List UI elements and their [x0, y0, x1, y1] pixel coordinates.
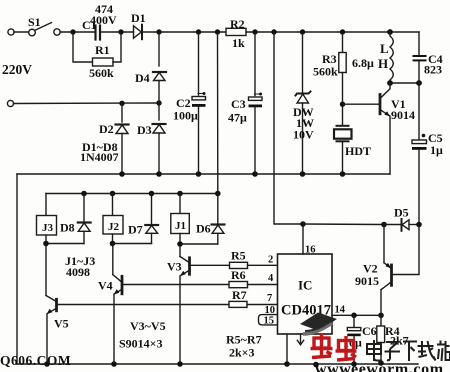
watermark bug char 1: [311, 333, 333, 358]
wire: [60, 31, 94, 33]
inductor L: [390, 32, 393, 83]
svg-text:C6: C6: [362, 324, 377, 338]
node J1 top: [177, 191, 183, 197]
node C1-D1 junction: [118, 29, 123, 34]
node J2 bottom: [110, 241, 116, 247]
diode D8: [78, 194, 91, 244]
svg-text:100μ: 100μ: [173, 109, 198, 123]
node DW top: [300, 29, 305, 34]
node C1 left junction: [70, 29, 75, 34]
wire bottom ground rail: [17, 363, 418, 365]
wire: [198, 107, 200, 174]
wire: [302, 103, 304, 174]
terminal top-left: [8, 29, 14, 35]
svg-text:Q606.COM: Q606.COM: [0, 353, 71, 368]
piezo HDT: [334, 126, 352, 142]
wire pin 14: [332, 314, 381, 316]
diode D7: [145, 194, 158, 244]
wire R3 top lead: [342, 32, 344, 53]
node J1 bottom: [177, 241, 183, 247]
svg-text:V3: V3: [167, 260, 182, 274]
wire C2 line: [198, 32, 200, 95]
svg-text:V3~V5: V3~V5: [130, 319, 166, 333]
resistor R4: [377, 315, 385, 364]
watermark text dianzi xiazaizhan: [367, 340, 450, 361]
wire R6 to pin4: [248, 284, 278, 286]
resistor R5: [230, 262, 248, 268]
wire J2-D7 link: [113, 243, 152, 245]
node mid rail DW: [300, 171, 306, 177]
svg-text:R2: R2: [230, 17, 245, 31]
node V5 emitter: [44, 361, 50, 367]
wire R7 to pin7: [247, 304, 277, 306]
svg-text:15: 15: [264, 316, 275, 327]
char xia: [403, 342, 417, 362]
wire IC rail to D5: [303, 223, 384, 226]
wire pins 10-15 loop: [259, 315, 278, 325]
node C6 top: [351, 313, 357, 319]
svg-text:9014: 9014: [391, 108, 415, 122]
capacitor C2: [192, 92, 206, 107]
wire long drop to IC rail: [274, 32, 303, 224]
char zai: [418, 341, 436, 361]
watermark logo cap: [300, 313, 337, 335]
wire pin 8 to ground: [286, 334, 288, 364]
svg-text:7: 7: [267, 293, 272, 304]
node J3 bottom: [43, 241, 49, 247]
node D4/D3 mid: [156, 100, 161, 105]
node mid rail D2: [119, 171, 125, 177]
svg-text:R7: R7: [232, 288, 247, 302]
wire R5 to pin2: [248, 264, 278, 266]
capacitor C3: [249, 93, 263, 108]
wire mid ground rail: [17, 173, 390, 175]
zener DW: [296, 92, 311, 104]
diode D6: [212, 194, 225, 245]
node D4 top: [156, 29, 161, 34]
node J2 top: [110, 191, 116, 197]
wire J1-D6 link: [180, 243, 218, 245]
node mid rail C3: [252, 171, 258, 177]
wire R3 bottom to HDT: [342, 73, 344, 126]
svg-text:D4: D4: [135, 71, 150, 85]
resistor R2: [226, 28, 246, 35]
capacitor C5: [412, 134, 427, 150]
op-amp IC CD4017 box: [278, 254, 333, 334]
node V1 base tap: [340, 102, 345, 107]
wire right rail to D5 node: [418, 150, 420, 225]
svg-text:823: 823: [424, 63, 442, 77]
relay J2: [103, 194, 123, 244]
transistor V3: [180, 244, 229, 364]
wire R1 right: [113, 34, 121, 62]
wire DW line: [302, 32, 304, 92]
wire: [121, 134, 123, 175]
node L top: [387, 29, 393, 35]
svg-text:560k: 560k: [89, 66, 114, 80]
svg-text:2k×3: 2k×3: [229, 346, 255, 360]
watermark bug char 2: [336, 336, 357, 360]
svg-text:J1: J1: [175, 220, 186, 232]
capacitor C1: [96, 26, 101, 40]
node R4 top: [378, 313, 384, 319]
relay J1: [171, 194, 190, 245]
wire: [158, 81, 160, 121]
node D5 right: [416, 222, 422, 228]
wire: [418, 61, 420, 139]
char zhan: [437, 341, 450, 362]
terminal lower-left: [7, 100, 13, 106]
resistor R1: [93, 58, 114, 66]
transistor V2: [381, 225, 419, 316]
svg-text:220V: 220V: [2, 62, 32, 77]
svg-text:R5~R7: R5~R7: [226, 333, 262, 347]
wire HDT bottom: [342, 141, 344, 174]
svg-text:IC: IC: [298, 278, 312, 293]
svg-text:R6: R6: [231, 268, 246, 282]
node bus drop top: [215, 29, 220, 34]
node D6 top: [215, 191, 221, 197]
transistor V1: [343, 83, 390, 174]
svg-text:J2: J2: [108, 221, 120, 233]
wire: [14, 31, 29, 33]
resistor R6: [229, 282, 248, 288]
svg-text:V5: V5: [54, 317, 69, 331]
svg-text:R1: R1: [95, 43, 110, 57]
node pin8 ground: [284, 361, 290, 367]
node D7 top: [149, 191, 155, 197]
node watermark junction: [313, 362, 319, 368]
svg-text:1k: 1k: [232, 36, 245, 50]
node V4 emitter: [111, 361, 117, 367]
wire neutral: [14, 102, 160, 105]
diode D4: [153, 72, 166, 81]
resistor R7: [229, 301, 247, 307]
diode D2: [116, 125, 129, 134]
node D8 top: [81, 191, 87, 197]
node R3 top: [340, 29, 345, 34]
diode D3: [153, 124, 166, 133]
char zi: [385, 342, 401, 360]
node R4 bottom: [378, 360, 384, 366]
svg-text:D6: D6: [196, 222, 211, 236]
svg-text:1N4007: 1N4007: [80, 150, 119, 164]
wire C3 line: [254, 32, 256, 96]
svg-text:9015: 9015: [355, 274, 379, 288]
svg-text:10: 10: [265, 305, 276, 316]
transistor V5: [46, 244, 229, 365]
wire top rail: [142, 31, 226, 33]
svg-text:D1: D1: [131, 11, 146, 25]
node C6 bottom: [351, 361, 357, 367]
node pin16: [300, 221, 306, 227]
svg-text:2: 2: [268, 255, 273, 266]
svg-text:S1: S1: [28, 15, 41, 29]
svg-text:10V: 10V: [293, 128, 314, 142]
node mid rail C2: [196, 171, 202, 177]
svg-text:16: 16: [305, 245, 316, 256]
node D5 left / V2 emitter: [381, 222, 387, 228]
svg-text:eeworm.com: eeworm.com: [351, 361, 444, 372]
wire L bottom link: [390, 82, 419, 84]
wire top rail right: [246, 31, 419, 33]
relay J3: [37, 194, 57, 244]
svg-text:6.8μ: 6.8μ: [352, 56, 374, 70]
wire right rail top: [418, 32, 420, 55]
svg-text:D2: D2: [99, 122, 114, 136]
node mid drop top: [271, 29, 276, 34]
svg-text:J3: J3: [42, 222, 54, 234]
wire pin 16: [302, 224, 304, 254]
svg-text:D7: D7: [128, 223, 143, 237]
node D2 top: [119, 101, 124, 106]
wire D2 line: [121, 104, 123, 123]
svg-text:S9014×3: S9014×3: [119, 337, 163, 351]
node C4 bottom link: [416, 80, 422, 86]
wire relay bus: [46, 193, 218, 195]
svg-text:D3: D3: [137, 123, 152, 137]
wire: [254, 108, 256, 175]
svg-text:4: 4: [268, 273, 274, 284]
char dian: [367, 340, 382, 361]
node mid rail D3: [156, 171, 162, 177]
svg-text:560k: 560k: [313, 65, 338, 79]
resistor R1 branch wire: [73, 34, 93, 62]
svg-text:4098: 4098: [66, 265, 90, 279]
wire: [101, 31, 134, 33]
resistor R3: [339, 53, 346, 73]
node C3 top: [252, 29, 257, 34]
transistor V4: [113, 244, 229, 365]
svg-text:C1: C1: [82, 18, 97, 32]
svg-text:C3: C3: [231, 97, 246, 111]
svg-text:HDT: HDT: [345, 144, 371, 158]
capacitor C6: [347, 315, 361, 364]
svg-text:www.: www.: [315, 361, 355, 372]
wire pin 13 arrow: [297, 334, 303, 345]
watermark www.eeworm.com: [315, 361, 444, 372]
wire D4 line: [158, 32, 160, 66]
svg-text:1μ: 1μ: [430, 143, 443, 157]
capacitor C4: [413, 55, 427, 61]
wire mid drop to relay bus: [217, 32, 219, 194]
svg-text:47μ: 47μ: [228, 111, 247, 125]
node L bottom: [387, 80, 393, 86]
svg-text:H: H: [378, 56, 388, 71]
diode D5: [384, 219, 419, 231]
svg-text:L: L: [380, 41, 389, 56]
svg-text:V4: V4: [98, 279, 113, 293]
wire J3-D8 link: [46, 243, 84, 245]
svg-text:14: 14: [335, 305, 346, 316]
node C2 top: [196, 29, 201, 34]
node V3 emitter: [177, 361, 183, 367]
diode D1: [134, 25, 143, 40]
switch S1: [29, 23, 61, 36]
wire left rail: [16, 174, 18, 364]
svg-text:D5: D5: [394, 206, 409, 220]
wire: [158, 133, 160, 174]
svg-text:D8: D8: [60, 221, 75, 235]
svg-text:R5: R5: [231, 249, 246, 263]
node mid rail HDT: [340, 171, 346, 177]
